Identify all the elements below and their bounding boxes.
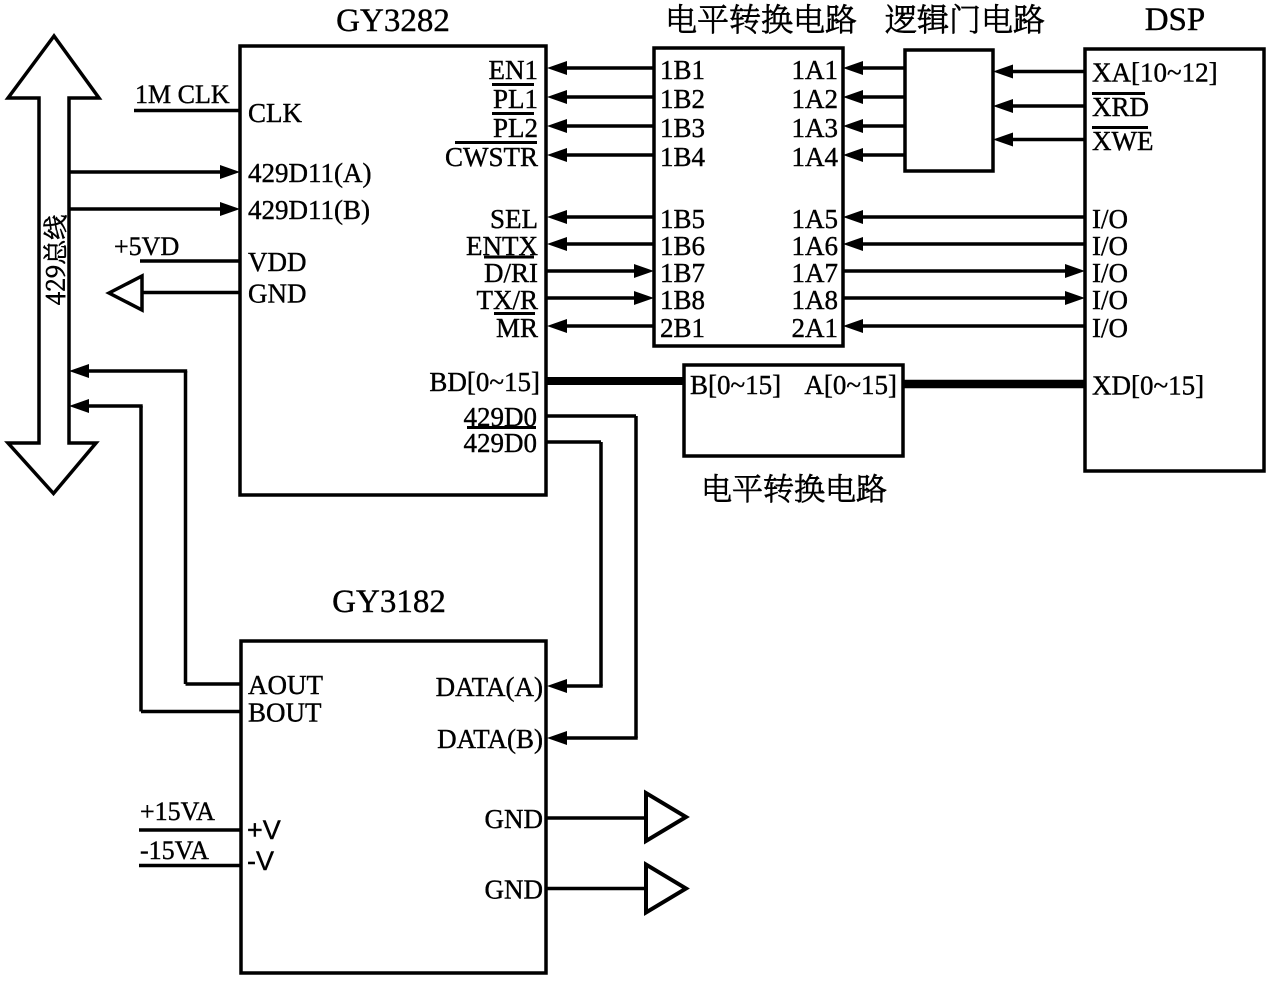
open triangle arrow GND A bbox=[646, 793, 686, 841]
wire 429D0(A) horizontal bbox=[546, 414, 636, 418]
svg-text:GY3182: GY3182 bbox=[332, 584, 446, 620]
svg-text:DSP: DSP bbox=[1145, 2, 1206, 38]
wire 1A5/IO1 bbox=[862, 215, 1085, 219]
wire 1A8/IO4 bbox=[843, 296, 1066, 300]
svg-text:XWE: XWE bbox=[1092, 126, 1153, 156]
wire BOUT vertical bbox=[139, 406, 143, 712]
svg-text:429D0: 429D0 bbox=[464, 428, 538, 458]
svg-text:+V: +V bbox=[247, 815, 281, 845]
arrow into 1A6 pin bbox=[843, 237, 863, 251]
svg-text:B[0~15]: B[0~15] bbox=[690, 370, 781, 400]
wire ENTX/1B6 bbox=[566, 242, 654, 246]
svg-text:I/O: I/O bbox=[1092, 313, 1128, 343]
svg-text:2B1: 2B1 bbox=[660, 313, 705, 343]
svg-text:429D11(B): 429D11(B) bbox=[248, 195, 370, 225]
wire SEL/1B5 bbox=[566, 215, 654, 219]
open triangle arrow GND B bbox=[646, 865, 686, 913]
wire PL2/1B3 bbox=[566, 124, 654, 128]
arrow BOUT into 429 bus bbox=[69, 399, 89, 413]
svg-text:GND: GND bbox=[485, 875, 544, 905]
wire logic gate to 1A2 bbox=[862, 95, 905, 99]
overline of MR bbox=[494, 312, 535, 315]
svg-text:+15VA: +15VA bbox=[140, 797, 215, 826]
svg-text:PL2: PL2 bbox=[493, 113, 538, 143]
svg-text:MR: MR bbox=[496, 313, 538, 343]
overline of 429D0 (B) bbox=[467, 426, 536, 429]
svg-text:1B2: 1B2 bbox=[660, 84, 705, 114]
overline of PL1 bbox=[492, 83, 534, 86]
svg-text:XRD: XRD bbox=[1092, 92, 1149, 122]
wire logic gate to 1A1 bbox=[862, 66, 905, 70]
arrow into RI pin bbox=[634, 264, 654, 278]
svg-text:XA[10~12]: XA[10~12] bbox=[1092, 58, 1218, 88]
wire MR/2B1 bbox=[566, 324, 654, 328]
svg-text:-15VA: -15VA bbox=[140, 836, 209, 865]
svg-text:GND: GND bbox=[485, 804, 544, 834]
wire 429 bus to 429D11(B) bbox=[69, 207, 222, 211]
wire AOUT vertical bbox=[184, 371, 188, 684]
arrow into 1A5 pin bbox=[843, 210, 863, 224]
wire 429D0(A) vertical bbox=[634, 416, 638, 738]
wire AOUT to 429 bus bbox=[87, 369, 187, 373]
overline of XRD bbox=[1092, 92, 1145, 95]
arrow into 1A3 pin bbox=[843, 119, 863, 133]
IC block logic-gate U3 bbox=[905, 50, 993, 171]
wire 2A1/IO5 bbox=[862, 324, 1085, 328]
svg-text:1A3: 1A3 bbox=[792, 113, 839, 143]
arrow into 1A1 pin bbox=[843, 61, 863, 75]
arrow into CWSTR pin bbox=[547, 148, 567, 162]
wire AOUT horizontal bbox=[186, 682, 242, 686]
wire GND pin out bbox=[142, 291, 240, 295]
bus A[0~15] to XD[0~15] (thick) bbox=[903, 380, 1085, 389]
IC block level-shifter U2 bbox=[654, 48, 843, 346]
overline of D/RI bbox=[484, 256, 534, 259]
arrow into PL1 pin bbox=[547, 90, 567, 104]
arrow into R pin bbox=[634, 291, 654, 305]
overline of CWSTR bbox=[455, 141, 537, 144]
svg-text:I/O: I/O bbox=[1092, 204, 1128, 234]
wire 429D0(B) to DATA(A) bbox=[567, 684, 603, 688]
svg-text:I/O: I/O bbox=[1092, 231, 1128, 261]
arrow into 1A2 pin bbox=[843, 90, 863, 104]
arrow into 429D11(B) pin bbox=[220, 202, 240, 216]
svg-text:1B3: 1B3 bbox=[660, 113, 705, 143]
label 电平转换电路 (level conversion circuit) bbox=[669, 4, 856, 33]
wire DSP XA[10~12] to logic gate bbox=[1012, 70, 1085, 74]
arrow into MR pin bbox=[547, 319, 567, 333]
svg-text:DATA(A): DATA(A) bbox=[436, 672, 543, 702]
svg-text:GND: GND bbox=[248, 279, 307, 309]
wire PL1/1B2 bbox=[566, 95, 654, 99]
svg-text:1A2: 1A2 bbox=[792, 84, 839, 114]
arrow into 429D11(A) pin bbox=[220, 165, 240, 179]
svg-text:429D11(A): 429D11(A) bbox=[248, 158, 371, 188]
svg-text:CWSTR: CWSTR bbox=[445, 142, 538, 172]
bus BD[0~15] to B[0~15] (thick) bbox=[546, 377, 684, 385]
svg-text:-V: -V bbox=[247, 846, 274, 876]
svg-text:AOUT: AOUT bbox=[248, 670, 323, 700]
wire 1A7/IO3 bbox=[843, 269, 1066, 273]
wire DSP XWE to logic gate bbox=[1012, 138, 1085, 142]
IC block GY3182 bbox=[241, 641, 546, 973]
wire 1A6/IO2 bbox=[862, 242, 1085, 246]
svg-text:1B7: 1B7 bbox=[660, 258, 705, 288]
svg-text:1B8: 1B8 bbox=[660, 285, 705, 315]
svg-text:1B1: 1B1 bbox=[660, 55, 705, 85]
wire D/RI/1B7 bbox=[547, 269, 635, 273]
svg-text:1A5: 1A5 bbox=[792, 204, 839, 234]
svg-text:DATA(B): DATA(B) bbox=[437, 724, 543, 754]
wire DSP XRD to logic gate bbox=[1012, 104, 1085, 108]
wire 1M CLK to CLK pin bbox=[134, 109, 240, 113]
svg-text:BD[0~15]: BD[0~15] bbox=[429, 367, 540, 397]
arrow XRD into logic gate bbox=[993, 99, 1013, 113]
svg-text:1A1: 1A1 bbox=[792, 55, 839, 85]
arrow XA[10~12] into logic gate bbox=[993, 65, 1013, 79]
wire GND out A bbox=[546, 816, 646, 820]
open arrow on GND wire bbox=[109, 276, 142, 310]
IC block DSP U4 bbox=[1085, 49, 1264, 471]
svg-text:2A1: 2A1 bbox=[792, 313, 839, 343]
wire +15VA to +V pin bbox=[139, 828, 241, 832]
arrow into ENTX pin bbox=[547, 237, 567, 251]
svg-text:PL1: PL1 bbox=[493, 84, 538, 114]
arrow into DSP I/O pin bbox=[1065, 264, 1085, 278]
svg-text:D/RI: D/RI bbox=[484, 258, 538, 288]
arrow into DSP I/O pin bbox=[1065, 291, 1085, 305]
svg-text:1B4: 1B4 bbox=[660, 142, 706, 172]
svg-text:1A8: 1A8 bbox=[792, 285, 839, 315]
label 电平转换电路 (level conversion circuit) lower bbox=[705, 474, 886, 502]
wire 429D0(B) vertical bbox=[599, 442, 603, 686]
wire GND out B bbox=[546, 887, 646, 891]
svg-text:1A4: 1A4 bbox=[792, 142, 839, 172]
wire 429 bus to 429D11(A) bbox=[69, 170, 222, 174]
svg-text:BOUT: BOUT bbox=[248, 698, 322, 728]
label 逻辑门电路 (logic gate circuit) bbox=[886, 4, 1044, 33]
arrow into PL2 pin bbox=[547, 119, 567, 133]
svg-text:CLK: CLK bbox=[248, 98, 303, 128]
svg-text:TX/R: TX/R bbox=[476, 285, 538, 315]
svg-text:1B5: 1B5 bbox=[660, 204, 705, 234]
arrow into SEL pin bbox=[547, 210, 567, 224]
svg-text:1M CLK: 1M CLK bbox=[135, 80, 230, 109]
svg-text:1A7: 1A7 bbox=[792, 258, 839, 288]
svg-text:I/O: I/O bbox=[1092, 258, 1128, 288]
svg-text:SEL: SEL bbox=[490, 204, 538, 234]
arrow into DATA(B) pin bbox=[547, 731, 567, 745]
wire +5VD to VDD pin bbox=[140, 259, 240, 263]
wire logic gate to 1A4 bbox=[862, 153, 905, 157]
wire TX/R/1B8 bbox=[547, 296, 635, 300]
overline of PL2 bbox=[492, 112, 534, 115]
svg-text:XD[0~15]: XD[0~15] bbox=[1092, 371, 1204, 401]
IC block level-shifter U5 bbox=[684, 365, 903, 456]
wire 429D0(A) to DATA(B) bbox=[567, 736, 638, 740]
wire 429D0(B) horizontal bbox=[546, 440, 601, 444]
svg-text:1A6: 1A6 bbox=[792, 231, 839, 261]
wire EN1/1B1 bbox=[566, 66, 654, 70]
svg-text:GY3282: GY3282 bbox=[336, 3, 450, 39]
arrow into DATA(A) pin bbox=[547, 679, 567, 693]
svg-text:EN1: EN1 bbox=[489, 55, 539, 85]
arrow into EN1 pin bbox=[547, 61, 567, 75]
wire logic gate to 1A3 bbox=[862, 124, 905, 128]
arrow into 2A1 pin bbox=[843, 319, 863, 333]
wire -15VA to -V pin bbox=[139, 864, 241, 868]
wire BOUT to 429 bus bbox=[87, 404, 143, 408]
overline of XWE bbox=[1092, 126, 1148, 129]
wire CWSTR/1B4 bbox=[566, 153, 654, 157]
svg-text:1B6: 1B6 bbox=[660, 231, 705, 261]
IC block GY3282 bbox=[240, 46, 546, 495]
arrow into 1A4 pin bbox=[843, 148, 863, 162]
arrow AOUT into 429 bus bbox=[69, 364, 89, 378]
wire BOUT horizontal bbox=[141, 710, 241, 714]
arrow XWE into logic gate bbox=[993, 133, 1013, 147]
svg-text:VDD: VDD bbox=[248, 247, 307, 277]
svg-text:A[0~15]: A[0~15] bbox=[804, 370, 897, 400]
429 bus double-headed arrow symbol bbox=[8, 36, 99, 494]
label 429总线 (429 bus) rotated bbox=[44, 215, 67, 304]
svg-text:+5VD: +5VD bbox=[114, 232, 179, 261]
svg-text:I/O: I/O bbox=[1092, 285, 1128, 315]
